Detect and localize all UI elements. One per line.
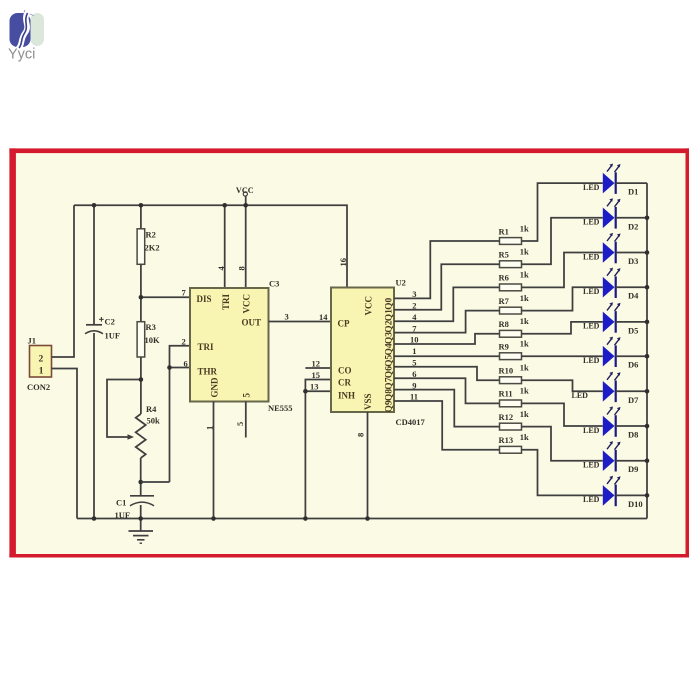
svg-text:DIS: DIS (197, 294, 212, 304)
junction VSS on ground rail (365, 516, 370, 521)
wire NE555 GND pin1 to rail (213, 402, 215, 519)
svg-text:LED: LED (583, 495, 600, 504)
svg-text:5: 5 (235, 422, 245, 426)
svg-text:VCC: VCC (236, 186, 254, 195)
svg-text:R12: R12 (499, 412, 514, 422)
capacitor C1 (115, 496, 155, 520)
junction CR/INH tie (303, 389, 308, 394)
svg-text:D7: D7 (628, 395, 639, 405)
svg-text:OUT: OUT (241, 318, 261, 328)
svg-text:VSS: VSS (363, 393, 373, 410)
junction bus at D4 (645, 285, 650, 290)
resistor R12 1k (499, 409, 530, 430)
svg-text:INH: INH (338, 391, 355, 401)
LED D5 (583, 302, 647, 335)
junction CR/INH on ground rail (303, 516, 308, 521)
junction pin8/VCC on VCC rail (243, 203, 248, 208)
LED D6 (583, 337, 647, 370)
svg-text:D3: D3 (628, 256, 638, 266)
wire Q7 to R11 (394, 378, 500, 403)
wire Q0 to R1 (394, 241, 500, 298)
junction TRI/THR tie (167, 365, 172, 370)
svg-text:R11: R11 (499, 389, 513, 399)
svg-text:1k: 1k (520, 270, 529, 280)
svg-text:1UF: 1UF (105, 331, 121, 341)
schematic background panel (9, 148, 689, 557)
wire Q2 to R6 (394, 287, 500, 321)
wire R10 to LED D7 (522, 380, 603, 391)
wire OUT pin3 to CP pin14 (269, 321, 332, 323)
svg-text:Q5: Q5 (385, 355, 395, 367)
svg-text:50k: 50k (147, 416, 161, 426)
wire Q5 to R9 (394, 355, 500, 357)
LED D1 (583, 164, 647, 197)
wire LED cathode bus (646, 183, 648, 518)
wire pin 4 to rail (224, 205, 226, 288)
svg-text:LED: LED (583, 426, 600, 435)
svg-text:10K: 10K (145, 335, 161, 345)
wire top VCC rail to pin 16 (74, 205, 347, 287)
svg-text:CON2: CON2 (27, 382, 50, 392)
svg-text:LED: LED (583, 183, 600, 192)
svg-text:LED: LED (583, 461, 600, 470)
svg-text:11: 11 (410, 392, 418, 402)
svg-text:Yyci: Yyci (8, 47, 35, 63)
wire Q6 to R10 (394, 367, 500, 380)
wire R2 top lead (140, 205, 142, 229)
junction bus at D10 (645, 493, 650, 498)
svg-text:1k: 1k (520, 223, 529, 233)
LED D9 (583, 441, 647, 474)
svg-text:D1: D1 (628, 187, 638, 197)
resistor R7 1k (499, 293, 530, 314)
svg-text:LED: LED (583, 218, 600, 227)
trimmer resistor R4 (136, 404, 160, 458)
resistor R6 1k (499, 270, 530, 291)
svg-text:R6: R6 (499, 273, 509, 283)
junction bus at D5 (645, 320, 650, 325)
svg-text:Q9: Q9 (385, 400, 395, 412)
svg-text:Q2: Q2 (385, 320, 395, 332)
svg-text:R7: R7 (499, 296, 510, 306)
VCC power symbol (236, 186, 254, 206)
svg-text:1k: 1k (520, 363, 529, 373)
svg-text:1k: 1k (520, 247, 529, 257)
wire J1 pin1 to ground rail (52, 369, 78, 519)
counter U2 : CD4017 (331, 288, 395, 413)
svg-text:CP: CP (338, 319, 350, 329)
svg-text:VCC: VCC (242, 294, 252, 314)
LED D3 (583, 233, 647, 266)
svg-text:6: 6 (412, 369, 416, 379)
svg-text:Q8: Q8 (385, 389, 395, 401)
svg-text:Q7: Q7 (385, 377, 395, 389)
wire TRI/THR tie (170, 346, 191, 482)
junction bus at D7 (645, 389, 650, 394)
svg-text:C2: C2 (105, 317, 115, 327)
wire Q3 to R7 (394, 311, 500, 333)
svg-text:THR: THR (198, 367, 218, 377)
resistor R3 (137, 322, 160, 357)
svg-text:1k: 1k (520, 409, 529, 419)
svg-text:2K2: 2K2 (145, 243, 160, 253)
wire INH pin13 stub (305, 390, 331, 392)
svg-text:CR: CR (338, 378, 351, 388)
wire junction to DIS pin 7 (141, 296, 190, 298)
svg-text:D10: D10 (628, 499, 643, 509)
svg-text:R3: R3 (146, 322, 156, 332)
wire C2 top lead (93, 205, 95, 324)
wire NE555 pin5 stub (245, 402, 247, 438)
resistor R13 1k (499, 432, 530, 453)
svg-text:1k: 1k (520, 293, 529, 303)
op-amp U1 : timer NE555 (190, 288, 269, 402)
svg-text:R4: R4 (146, 404, 157, 414)
connector J1 (27, 336, 52, 393)
svg-text:1: 1 (412, 346, 416, 356)
svg-text:LED: LED (583, 356, 600, 365)
svg-text:J1: J1 (28, 336, 37, 346)
svg-text:R8: R8 (499, 319, 509, 329)
LED D10 (583, 476, 647, 509)
svg-text:D4: D4 (628, 291, 639, 301)
wire pin 8 to rail (245, 205, 247, 288)
junction R4 wiper tap (139, 377, 144, 382)
svg-text:1: 1 (39, 367, 44, 377)
wire R6 to LED D3 (522, 253, 603, 288)
LED D7 (572, 372, 648, 405)
svg-text:1k: 1k (520, 386, 529, 396)
resistor R11 1k (499, 386, 530, 407)
LED D4 (583, 268, 647, 301)
svg-text:1k: 1k (520, 339, 529, 349)
svg-text:D2: D2 (628, 221, 638, 231)
svg-text:7: 7 (412, 323, 417, 333)
svg-text:2: 2 (182, 337, 186, 347)
svg-text:CO: CO (338, 366, 352, 376)
svg-text:5: 5 (242, 393, 252, 398)
svg-text:D9: D9 (628, 464, 638, 474)
junction bus at D8 (645, 424, 650, 429)
svg-text:LED: LED (583, 287, 600, 296)
resistor R8 1k (499, 316, 530, 337)
junction bus at D6 (645, 354, 650, 359)
wire THR branch to C1 node (141, 481, 170, 483)
LED D8 (583, 406, 647, 439)
wire R7 to LED D4 (522, 287, 603, 310)
wire Q4 to R8 (394, 334, 500, 344)
wire bottom ground rail (77, 518, 647, 520)
wire R8 to LED D5 (522, 322, 603, 334)
svg-text:CD4017: CD4017 (396, 417, 426, 427)
wire R5 to LED D2 (522, 218, 603, 264)
resistor R5 1k (499, 247, 530, 268)
wire Q1 to R5 (394, 264, 500, 310)
svg-text:1UF: 1UF (115, 510, 131, 520)
junction C1/ground on ground rail (138, 516, 143, 521)
svg-text:2: 2 (412, 301, 416, 311)
svg-text:4: 4 (412, 312, 417, 322)
resistor R1 1k (499, 223, 530, 244)
svg-text:R1: R1 (499, 226, 509, 236)
resistor R10 1k (499, 363, 530, 384)
svg-text:R10: R10 (499, 366, 514, 376)
wire R1 to LED D1 (522, 183, 603, 241)
svg-text:D5: D5 (628, 325, 638, 335)
wire THR stub (170, 367, 191, 369)
svg-text:3: 3 (412, 289, 416, 299)
svg-text:LED: LED (583, 252, 600, 261)
svg-text:1k: 1k (520, 316, 529, 326)
wire R13 to LED D10 (522, 450, 603, 496)
wire CR/INH tie to ground (305, 380, 331, 519)
svg-text:Q4: Q4 (385, 343, 395, 355)
svg-text:LED: LED (583, 322, 600, 331)
svg-text:GND: GND (210, 377, 220, 398)
svg-text:D6: D6 (628, 360, 638, 370)
svg-text:10: 10 (410, 335, 419, 345)
junction NE555 GND on ground rail (211, 516, 216, 521)
wire CO pin12 stub (305, 367, 331, 369)
junction C1/R4/THR node (138, 480, 143, 485)
wire R11 to LED D8 (522, 403, 603, 426)
svg-text:TRI: TRI (198, 342, 215, 352)
wire R3 to R4 (140, 357, 142, 414)
svg-text:2: 2 (39, 355, 44, 365)
svg-text:9: 9 (412, 380, 416, 390)
svg-text:1k: 1k (520, 432, 529, 442)
junction bus at D2 (645, 216, 650, 221)
junction R2/R3/DIS node (139, 295, 144, 300)
junction bus at D3 (645, 250, 650, 255)
svg-text:R13: R13 (499, 435, 514, 445)
svg-text:U2: U2 (396, 278, 406, 288)
svg-text:LED: LED (572, 391, 589, 400)
junction C2 bottom on ground rail (92, 516, 97, 521)
wire R2 to R3 (140, 264, 142, 321)
wire VSS pin8 to rail (367, 412, 369, 519)
ground symbol (129, 519, 154, 544)
svg-text:15: 15 (312, 370, 321, 380)
svg-text:Q0: Q0 (385, 298, 395, 310)
svg-text:NE555: NE555 (268, 403, 293, 413)
wire J1 pin2 to VCC rail (52, 205, 75, 357)
svg-text:6: 6 (184, 359, 188, 369)
wire R4 wiper loop (107, 380, 141, 440)
svg-text:C3: C3 (269, 279, 279, 289)
junction pin4 on VCC rail (222, 203, 227, 208)
wire C2 bottom lead (93, 333, 95, 519)
svg-text:16: 16 (338, 258, 348, 267)
logo Yyci watermark (8, 10, 44, 63)
LED D2 (583, 198, 647, 231)
svg-text:3: 3 (285, 312, 289, 322)
wire R12 to LED D9 (522, 427, 603, 461)
svg-text:5: 5 (412, 358, 416, 368)
junction bus at D9 (645, 458, 650, 463)
wire R9 to LED D6 (522, 355, 603, 357)
svg-text:12: 12 (312, 358, 321, 368)
svg-text:R2: R2 (146, 230, 156, 240)
svg-text:Q1: Q1 (385, 309, 395, 321)
svg-text:Q6: Q6 (385, 366, 395, 378)
svg-text:R9: R9 (499, 342, 509, 352)
svg-text:8: 8 (356, 433, 366, 437)
svg-text:D8: D8 (628, 430, 638, 440)
svg-text:TRI: TRI (221, 293, 231, 310)
svg-text:13: 13 (310, 382, 319, 392)
junction R2 top on VCC rail (139, 203, 144, 208)
wire C1 to ground rail (140, 505, 142, 519)
resistor R9 1k (499, 339, 530, 360)
wire Q8 to R12 (394, 390, 500, 427)
svg-text:C1: C1 (116, 498, 126, 508)
wire R4 to C1 (140, 458, 142, 496)
svg-text:Q3: Q3 (385, 332, 395, 344)
svg-text:14: 14 (319, 312, 328, 322)
svg-text:VCC: VCC (364, 296, 374, 316)
wire Q9 to R13 (394, 401, 500, 450)
junction C2 top on VCC rail (92, 203, 97, 208)
svg-text:8: 8 (237, 266, 247, 270)
svg-text:R5: R5 (499, 250, 509, 260)
